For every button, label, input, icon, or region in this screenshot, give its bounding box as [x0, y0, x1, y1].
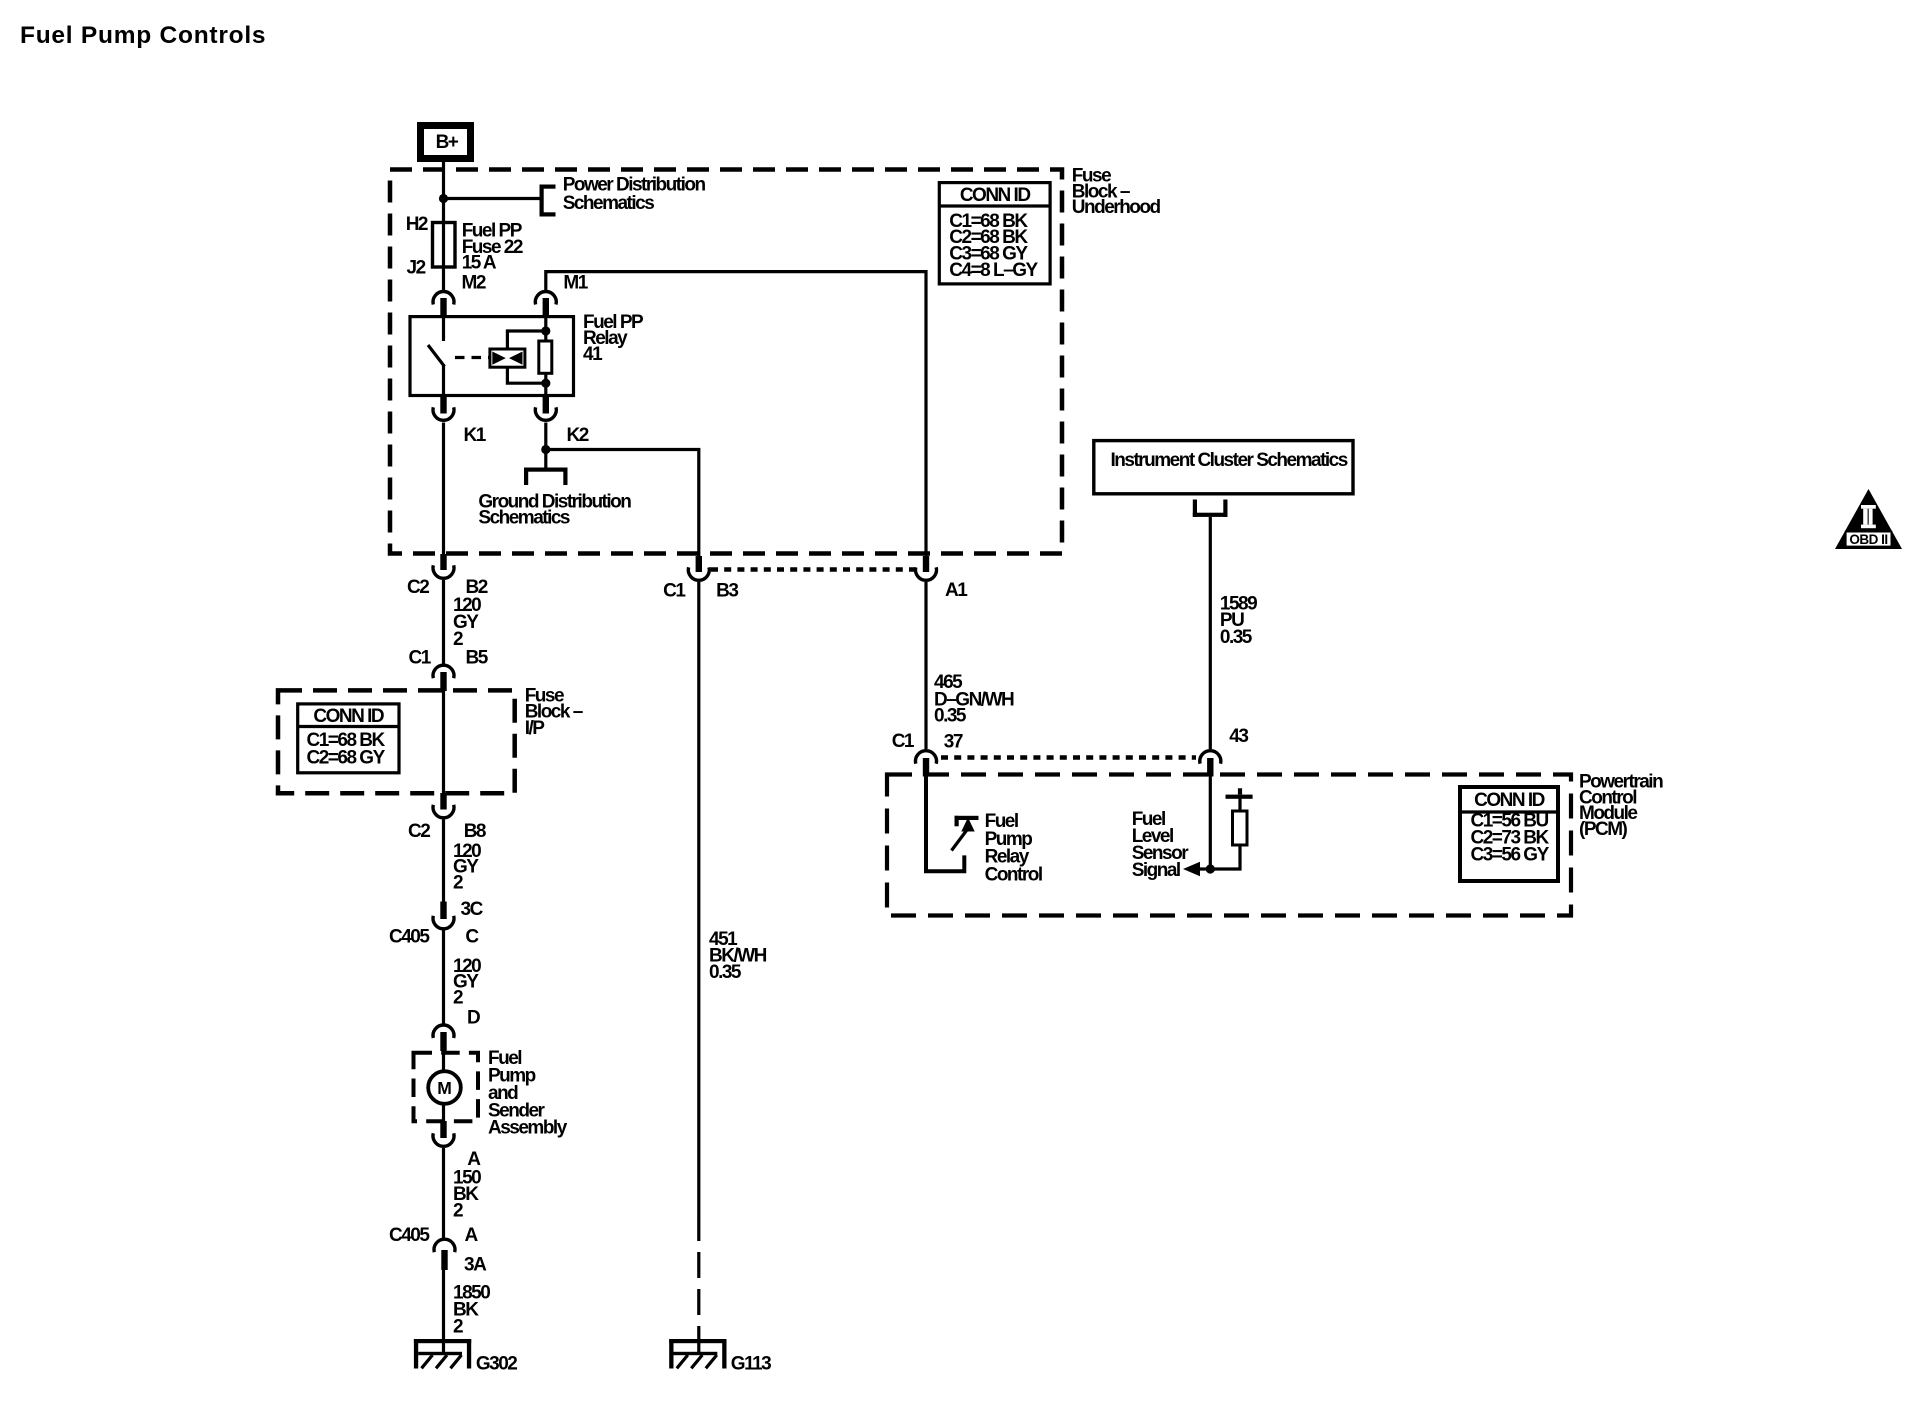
svg-text:C2: C2	[408, 821, 430, 842]
svg-text:M1: M1	[563, 273, 588, 294]
wire circuit 120 GY 2 (C to D)	[442, 930, 445, 1024]
svg-text:Control: Control	[985, 864, 1042, 885]
relay actuator dashed link	[455, 356, 489, 359]
relay coil bottom wire	[507, 367, 545, 383]
relay coil top wire	[507, 331, 545, 349]
wire circuit 1850 BK 2 (3A to G302)	[442, 1270, 445, 1352]
svg-text:Instrument Cluster Schematics: Instrument Cluster Schematics	[1111, 450, 1348, 471]
svg-text:Fuel Pump Controls: Fuel Pump Controls	[20, 22, 266, 49]
ground G113	[669, 1339, 771, 1375]
value label 150 BK 2	[453, 1168, 481, 1222]
relay switch fixed contact (top)	[442, 318, 445, 341]
svg-text:3C: 3C	[461, 899, 484, 920]
svg-text:G302: G302	[476, 1354, 517, 1375]
fuse: Fuel PP Fuse 22 15 A	[433, 223, 456, 268]
label Fuel Level Sensor Signal	[1132, 809, 1190, 881]
svg-text:37: 37	[944, 732, 963, 753]
value label 465 D-GN/WH 0.35	[934, 672, 1014, 727]
svg-text:CONN ID: CONN ID	[313, 706, 384, 727]
arrow fuel level sensor signal	[1183, 862, 1200, 876]
node sensor signal junction	[1206, 864, 1215, 873]
wire pin 37 into driver	[926, 776, 964, 871]
node splice on B+ feed	[439, 194, 448, 203]
svg-text:B+: B+	[436, 132, 459, 153]
svg-text:C3=56 GY: C3=56 GY	[1471, 845, 1550, 866]
connector table CONN ID (PCM)	[1460, 787, 1558, 881]
svg-text:K2: K2	[567, 425, 589, 446]
svg-text:I/P: I/P	[525, 718, 546, 739]
OBD II symbol	[1835, 489, 1902, 549]
svg-text:H2: H2	[406, 214, 428, 235]
svg-text:C1: C1	[409, 648, 432, 669]
connector table CONN ID (fuse block underhood)	[939, 183, 1050, 284]
relay coil (bowtie)	[490, 349, 525, 367]
value label 1589 PU 0.35	[1220, 594, 1257, 649]
pin M2 (connector into relay cavity)	[433, 273, 486, 318]
svg-text:C2=68 GY: C2=68 GY	[307, 748, 386, 769]
svg-text:(PCM): (PCM)	[1579, 819, 1628, 840]
wire K1 down to B2 exit	[442, 423, 445, 555]
wire B+ down to fuse	[442, 160, 445, 224]
enclosure: Fuse Block Underhood (dashed)	[390, 170, 1062, 554]
svg-text:CONN ID: CONN ID	[1474, 790, 1545, 811]
motor M (fuel pump)	[428, 1071, 461, 1104]
pin C1/B5 (I/P fuse block entry)	[409, 648, 489, 692]
value label 451 BK/WH 0.35	[709, 929, 767, 983]
wire M1 riser from relay to A1 drop	[546, 272, 926, 556]
relay internal resistor	[539, 317, 552, 395]
wire circuit 150 BK 2 (A to C405)	[442, 1148, 445, 1239]
svg-text:C1: C1	[892, 731, 915, 752]
pin C1/37 (PCM entry)	[892, 731, 963, 777]
wire through I/P fuse block	[442, 690, 445, 793]
label Fuel Pump Relay Control	[985, 811, 1042, 885]
value label 120 GY 2	[453, 595, 481, 650]
value label 1850 BK 2	[453, 1283, 490, 1338]
enclosure: Fuse Block I/P (dashed)	[278, 690, 515, 793]
svg-text:A: A	[465, 1225, 479, 1246]
node: coil bottom junction	[541, 379, 550, 388]
pin M1 (connector into relay cavity)	[535, 273, 588, 318]
svg-text:C4=8 L–GY: C4=8 L–GY	[949, 260, 1038, 281]
svg-text:Signal: Signal	[1132, 860, 1180, 881]
wire K2 splice to B3 exit	[546, 450, 699, 557]
svg-text:41: 41	[583, 344, 603, 365]
label Fuse Block I/P	[525, 686, 583, 739]
wire circuit 120 GY 2 (B2 to B5)	[442, 580, 445, 664]
value label 120 GY 2	[453, 956, 481, 1009]
pin K2 (relay coil return)	[535, 396, 588, 447]
off-page bracket below instrument cluster	[1193, 500, 1228, 517]
svg-text:2: 2	[453, 1201, 463, 1222]
wire motor to pin A	[442, 1104, 445, 1122]
svg-text:Assembly: Assembly	[488, 1118, 568, 1139]
svg-text:0.35: 0.35	[1220, 627, 1253, 648]
svg-text:G113: G113	[731, 1354, 771, 1375]
pin K1 (relay output)	[433, 396, 487, 447]
svg-text:0.35: 0.35	[709, 962, 742, 983]
relay K41 Fuel PP Relay outline	[410, 317, 574, 396]
relay switch blade	[428, 345, 445, 367]
inline connector C405 pin 3C/C	[389, 899, 484, 948]
svg-text:Schematics: Schematics	[478, 508, 570, 529]
svg-text:J2: J2	[407, 258, 426, 279]
driver switch: fuel pump relay control	[952, 816, 979, 851]
svg-text:15 A: 15 A	[462, 253, 497, 274]
svg-text:Schematics: Schematics	[563, 193, 655, 214]
svg-text:B3: B3	[716, 581, 738, 602]
value label 120 GY 2	[453, 841, 481, 894]
svg-text:C: C	[465, 927, 479, 948]
wire dashed segment to G113	[697, 1215, 700, 1352]
svg-text:Underhood: Underhood	[1072, 197, 1161, 218]
svg-text:2: 2	[453, 1317, 463, 1338]
inline connector C405 pin A/3A	[389, 1225, 487, 1276]
label Powertrain Control Module (PCM)	[1579, 772, 1663, 840]
svg-text:CONN ID: CONN ID	[960, 185, 1031, 206]
svg-text:0.35: 0.35	[934, 706, 967, 727]
relay switch lower contact	[442, 366, 445, 395]
box Instrument Cluster Schematics	[1094, 441, 1353, 494]
svg-text:3A: 3A	[464, 1255, 487, 1276]
svg-text:K1: K1	[464, 425, 487, 446]
pin C1/B3 (underhood fuse block exit)	[663, 556, 738, 602]
svg-text:43: 43	[1229, 726, 1248, 747]
svg-text:2: 2	[453, 629, 463, 650]
pin A (fuel pump assembly exit)	[433, 1121, 481, 1170]
connector table CONN ID (fuse block I/P)	[298, 704, 399, 773]
wire splice to power distribution tag	[444, 197, 541, 200]
wire circuit 1589 PU (cluster to 43)	[1209, 517, 1212, 749]
wire K2 down to ground tag	[544, 423, 547, 469]
wire D to motor	[442, 1048, 445, 1072]
wire circuit 120 GY 2 (B8 to 3C)	[442, 820, 445, 903]
svg-text:C2: C2	[407, 577, 429, 598]
svg-text:B8: B8	[464, 821, 486, 842]
enclosure: Fuel Pump and Sender Assembly (dashed)	[414, 1053, 479, 1121]
svg-text:M2: M2	[462, 273, 486, 294]
off-page tag: Power Distribution Schematics	[540, 175, 706, 217]
svg-text:C1: C1	[663, 581, 686, 602]
label Fuel Pump and Sender Assembly	[488, 1048, 568, 1139]
svg-text:D: D	[467, 1008, 480, 1029]
pin C2/B8 (I/P fuse block exit)	[408, 793, 486, 842]
pull-up resistor (fuel level sense)	[1226, 788, 1253, 845]
svg-text:2: 2	[453, 873, 463, 894]
battery feed terminal B+	[421, 126, 471, 159]
dotted connector line C1 (B3 to A1)	[711, 567, 914, 572]
svg-text:M: M	[437, 1078, 452, 1098]
svg-text:2: 2	[453, 988, 463, 1009]
wire circuit 451 BK/WH (B3 down)	[697, 582, 700, 1215]
node: coil top junction on M1 leg	[541, 326, 550, 335]
ground G302	[414, 1339, 517, 1375]
pin C2/B2 (underhood fuse block exit)	[407, 554, 488, 598]
svg-text:OBD II: OBD II	[1849, 532, 1887, 547]
pin A1 (underhood fuse block exit)	[916, 556, 969, 601]
label Fuel PP Relay 41	[583, 312, 644, 365]
label Fuse Block Underhood	[1072, 166, 1161, 219]
enclosure: Powertrain Control Module PCM (dashed)	[887, 775, 1571, 916]
svg-text:C405: C405	[389, 1225, 430, 1246]
wire circuit 465 D-GN/WH (A1 to 37)	[924, 582, 927, 749]
node K2 splice	[541, 445, 550, 454]
dotted connector line C1 (37 to 43)	[941, 755, 1196, 760]
svg-text:A1: A1	[945, 580, 968, 601]
off-page tag: Ground Distribution Schematics	[478, 468, 631, 529]
wire junction to pull-up resistor	[1210, 845, 1240, 869]
value label Fuel PP Fuse 22 15 A	[462, 221, 523, 274]
pin 43 (PCM entry)	[1200, 726, 1249, 777]
svg-text:B5: B5	[466, 648, 489, 669]
wire fuse to pin M2	[442, 267, 445, 290]
wire pin 43 to sensor signal node	[1199, 776, 1210, 869]
pin D (fuel pump assembly entry)	[433, 1008, 480, 1052]
svg-text:C405: C405	[389, 927, 430, 948]
